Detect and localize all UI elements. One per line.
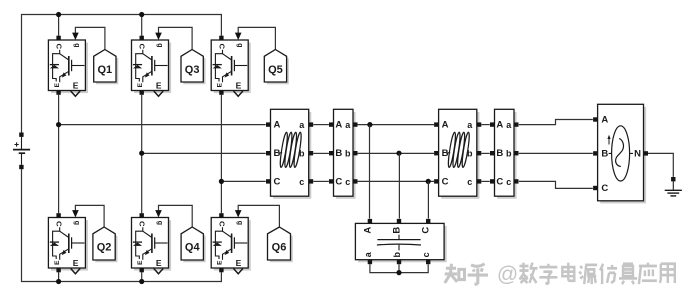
svg-text:E: E bbox=[54, 260, 61, 265]
svg-text:C: C bbox=[55, 221, 64, 227]
svg-text:C: C bbox=[273, 176, 280, 187]
Goto tag Q6 bbox=[268, 227, 293, 262]
svg-text:g: g bbox=[73, 43, 80, 47]
svg-text:E: E bbox=[137, 82, 144, 87]
svg-text:g: g bbox=[236, 43, 243, 47]
wire: cap c to neutral bus bbox=[399, 264, 428, 272]
wire: gate signal to Q4 bbox=[155, 205, 192, 227]
svg-text:Q3: Q3 bbox=[185, 64, 200, 76]
ground bbox=[665, 177, 682, 196]
junction: top rail / leg B bbox=[139, 12, 144, 17]
svg-text:B: B bbox=[273, 148, 280, 159]
svg-text:C: C bbox=[442, 176, 449, 187]
wire: L2 b to M2 B bbox=[482, 152, 490, 154]
junction: cap tap a bbox=[367, 122, 372, 127]
wire: phase C to filter bbox=[221, 180, 265, 182]
svg-text:A: A bbox=[362, 227, 373, 234]
wire: phase b M1 to L2 bbox=[358, 152, 434, 154]
watermark: @ account name bbox=[497, 263, 675, 286]
svg-text:Q4: Q4 bbox=[185, 242, 201, 254]
svg-text:A: A bbox=[442, 120, 449, 131]
wire: top rail drop to Q3 leg bbox=[141, 15, 143, 36]
three-phase AC load/source block bbox=[593, 104, 648, 203]
svg-text:c: c bbox=[345, 177, 350, 187]
svg-text:E: E bbox=[156, 258, 162, 268]
junction: bottom rail / leg B bbox=[139, 279, 144, 284]
wire: gate signal to Q3 bbox=[155, 27, 192, 49]
svg-text:Q1: Q1 bbox=[98, 64, 113, 76]
wire: L1 a to M1 A bbox=[313, 124, 329, 126]
svg-text:A: A bbox=[496, 120, 503, 131]
DC voltage source battery bbox=[13, 133, 30, 170]
junction: phase C tap bbox=[219, 179, 224, 184]
wire: phase a M1 to L2 bbox=[358, 124, 434, 126]
svg-text:A: A bbox=[273, 120, 280, 131]
wire: phase b to load B bbox=[519, 152, 593, 154]
wire: gate signal to Q6 bbox=[235, 205, 280, 227]
junction: neutral bus bbox=[396, 270, 401, 275]
svg-text:b: b bbox=[345, 149, 351, 159]
IGBT block Q3 bbox=[132, 36, 172, 97]
svg-text:E: E bbox=[217, 82, 224, 87]
svg-text:E: E bbox=[236, 258, 242, 268]
wire: cap tap C vertical bbox=[427, 181, 429, 218]
junction: top rail / leg A bbox=[56, 12, 61, 17]
svg-text:@: @ bbox=[497, 263, 518, 286]
svg-text:B: B bbox=[442, 148, 449, 159]
wire: cap b to neutral bus bbox=[398, 264, 400, 272]
svg-text:E: E bbox=[156, 80, 162, 90]
junction: phase A tap bbox=[56, 122, 61, 127]
wire: positive DC bus top rail bbox=[22, 15, 222, 133]
wire: leg A (Q1-Q2 midpoint) bbox=[58, 95, 60, 213]
svg-text:c: c bbox=[299, 177, 304, 187]
wire: gate signal to Q1 bbox=[72, 27, 105, 49]
Goto tag Q1 bbox=[94, 50, 119, 85]
wire: phase c M1 to L2 bbox=[358, 180, 434, 182]
wire: L1 c to M1 C bbox=[313, 180, 329, 182]
svg-text:E: E bbox=[54, 82, 61, 87]
svg-text:g: g bbox=[156, 43, 163, 47]
IGBT block Q6 bbox=[211, 213, 251, 274]
wire: gate signal to Q5 bbox=[235, 27, 276, 49]
Goto tag Q5 bbox=[264, 50, 289, 85]
svg-text:C: C bbox=[138, 44, 147, 50]
svg-text:C: C bbox=[217, 44, 226, 50]
wire: cap a to neutral bus bbox=[370, 264, 399, 272]
IGBT block Q5 bbox=[211, 36, 251, 97]
svg-text:B: B bbox=[392, 227, 403, 234]
svg-text:c: c bbox=[506, 177, 511, 187]
Goto tag Q4 bbox=[181, 227, 206, 262]
svg-text:E: E bbox=[73, 258, 79, 268]
wire: cap tap B vertical bbox=[398, 153, 400, 218]
svg-text:C: C bbox=[496, 176, 503, 187]
wire: Q4 emitter stub to bottom rail bbox=[141, 272, 143, 281]
wire: phase A to filter bbox=[59, 124, 266, 126]
svg-text:A: A bbox=[601, 114, 608, 125]
svg-text:N: N bbox=[634, 148, 641, 159]
wire: L2 c to M2 C bbox=[482, 180, 490, 182]
svg-text:g: g bbox=[156, 221, 163, 225]
svg-text:c: c bbox=[421, 252, 431, 257]
svg-text:C: C bbox=[335, 176, 342, 187]
wire: phase B to filter bbox=[142, 152, 266, 154]
svg-text:b: b bbox=[392, 252, 402, 258]
junction: cap tap c bbox=[426, 179, 431, 184]
svg-text:C: C bbox=[421, 227, 432, 234]
wire: L1 b to M1 B bbox=[313, 152, 329, 154]
svg-text:E: E bbox=[236, 80, 242, 90]
svg-text:g: g bbox=[236, 221, 243, 225]
svg-text:Q2: Q2 bbox=[97, 242, 112, 254]
wire: load N to ground bbox=[648, 153, 673, 177]
svg-text:g: g bbox=[73, 221, 80, 225]
svg-text:C: C bbox=[601, 183, 608, 194]
svg-text:Q5: Q5 bbox=[268, 64, 283, 76]
IGBT block Q4 bbox=[132, 213, 172, 274]
svg-text:E: E bbox=[217, 260, 224, 265]
three-phase measurement block M1 bbox=[329, 109, 358, 199]
svg-text:B: B bbox=[496, 148, 503, 159]
three-phase capacitor bank block bbox=[355, 219, 446, 264]
Goto tag Q3 bbox=[181, 50, 206, 85]
svg-text:E: E bbox=[73, 80, 79, 90]
IGBT block Q2 bbox=[48, 213, 88, 274]
wire: top rail drop to Q1 leg bbox=[58, 15, 60, 36]
three-phase inductor block L1 bbox=[266, 109, 313, 199]
svg-text:A: A bbox=[335, 120, 342, 131]
Goto tag Q2 bbox=[93, 227, 118, 262]
svg-text:C: C bbox=[55, 44, 64, 50]
wire: Q2 emitter stub to bottom rail bbox=[58, 272, 60, 281]
svg-text:b: b bbox=[506, 149, 512, 159]
svg-text:Q6: Q6 bbox=[272, 242, 287, 254]
wire: phase c to load C bbox=[519, 181, 593, 188]
svg-text:B: B bbox=[601, 148, 608, 159]
junction: cap tap b bbox=[396, 151, 401, 156]
wire: cap tap A vertical bbox=[369, 125, 371, 219]
svg-text:C: C bbox=[217, 221, 226, 227]
wire: phase a to load A bbox=[519, 120, 593, 125]
IGBT block Q1 bbox=[48, 36, 88, 97]
wire: gate signal to Q2 bbox=[72, 205, 104, 227]
watermark: Zhihu logo text bbox=[445, 264, 488, 284]
junction: bottom rail / leg A bbox=[56, 279, 61, 284]
svg-text:B: B bbox=[335, 148, 342, 159]
wire: leg C (Q5-Q6 midpoint) bbox=[220, 95, 222, 213]
junction: phase B tap bbox=[139, 151, 144, 156]
wire: L2 a to M2 A bbox=[482, 124, 490, 126]
three-phase inductor block L2 bbox=[434, 109, 481, 199]
svg-text:C: C bbox=[138, 221, 147, 227]
wire: negative DC bus bottom rail bbox=[22, 169, 222, 281]
svg-text:c: c bbox=[467, 177, 472, 187]
three-phase measurement block M2 bbox=[490, 109, 519, 199]
wire: leg B (Q3-Q4 midpoint) bbox=[141, 95, 143, 213]
svg-text:E: E bbox=[137, 260, 144, 265]
